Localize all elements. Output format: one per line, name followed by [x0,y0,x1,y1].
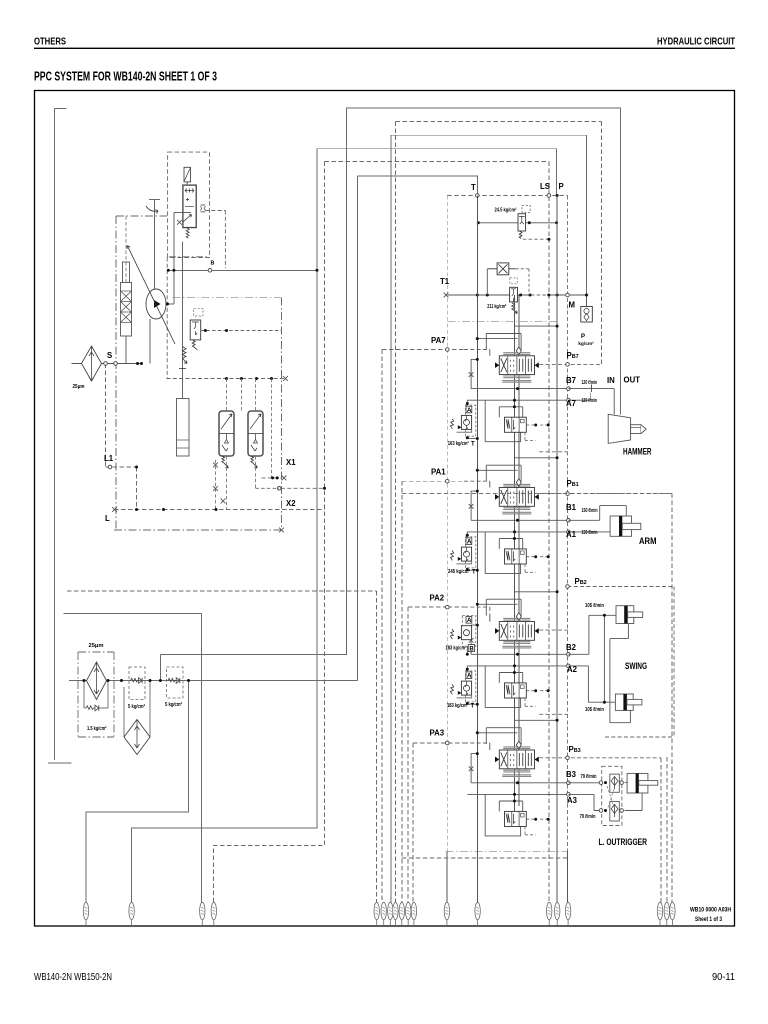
svg-text:B: B [211,261,215,267]
svg-text:WB10 0000 A03H: WB10 0000 A03H [690,907,731,914]
svg-text:WB140-2N WB150-2N: WB140-2N WB150-2N [34,972,112,983]
svg-text:183 kg/cm²: 183 kg/cm² [446,646,467,652]
svg-text:L1: L1 [104,454,114,463]
svg-text:90-11: 90-11 [712,972,735,983]
svg-text:A: A [467,617,472,624]
svg-text:183 kg/cm²: 183 kg/cm² [447,703,468,709]
svg-text:Sheet 1 of 3: Sheet 1 of 3 [695,916,722,923]
svg-text:LS: LS [540,182,550,191]
svg-text:X1: X1 [286,458,296,467]
svg-text:PA2: PA2 [430,594,445,603]
svg-text:P: P [559,182,564,191]
svg-text:B: B [469,646,474,652]
svg-text:25μm: 25μm [89,643,104,649]
svg-text:79 ℓ/min: 79 ℓ/min [581,774,597,780]
svg-text:B2: B2 [566,643,577,652]
svg-text:ARM: ARM [639,536,657,546]
svg-text:211 kg/cm²: 211 kg/cm² [487,304,506,310]
svg-text:M: M [569,301,576,310]
svg-text:P: P [581,334,585,340]
svg-text:1.5 kg/cm²: 1.5 kg/cm² [87,726,107,732]
svg-text:T: T [471,183,476,192]
svg-text:T: T [471,442,475,448]
svg-text:25μm: 25μm [73,384,85,390]
svg-text:105 ℓ/min: 105 ℓ/min [585,707,604,713]
svg-text:PPC SYSTEM FOR WB140-2N SHEET: PPC SYSTEM FOR WB140-2N SHEET 1 OF 3 [34,70,217,84]
svg-text:PA3: PA3 [430,729,445,738]
svg-text:HYDRAULIC CIRCUIT: HYDRAULIC CIRCUIT [657,36,735,48]
svg-text:120 ℓ/min: 120 ℓ/min [582,398,598,404]
svg-text:A2: A2 [567,665,578,674]
svg-text:T1: T1 [440,277,450,286]
svg-text:245 kg/cm²: 245 kg/cm² [448,569,470,575]
svg-text:150 ℓ/min: 150 ℓ/min [582,508,598,514]
svg-text:B3: B3 [566,770,577,779]
svg-text:OTHERS: OTHERS [34,36,66,48]
svg-text:A1: A1 [566,530,577,539]
svg-text:150 ℓ/min: 150 ℓ/min [582,530,598,536]
svg-text:SWING: SWING [625,661,647,671]
svg-text:OUT: OUT [624,376,641,385]
svg-text:L. OUTRIGGER: L. OUTRIGGER [599,837,648,847]
svg-text:T: T [471,704,475,710]
svg-text:B1: B1 [566,503,577,512]
svg-text:T: T [472,570,476,576]
svg-text:PA1: PA1 [431,468,446,477]
svg-text:HAMMER: HAMMER [623,447,652,457]
svg-text:163 kg/cm²: 163 kg/cm² [448,441,469,447]
svg-text:120 ℓ/min: 120 ℓ/min [582,380,598,386]
svg-text:105 ℓ/min: 105 ℓ/min [585,603,604,609]
svg-text:S: S [107,351,112,360]
svg-text:B7: B7 [566,376,576,385]
svg-text:L: L [105,514,110,523]
svg-text:PA7: PA7 [431,336,446,345]
svg-text:X2: X2 [286,499,296,508]
svg-text:79 ℓ/min: 79 ℓ/min [580,814,596,820]
svg-text:24.5 kg/cm²: 24.5 kg/cm² [495,208,517,214]
svg-text:kg/cm²: kg/cm² [578,341,594,347]
svg-text:5 kg/cm²: 5 kg/cm² [128,704,145,710]
svg-text:5 kg/cm²: 5 kg/cm² [165,702,182,708]
svg-text:A3: A3 [567,796,578,805]
svg-text:A7: A7 [566,399,576,408]
svg-text:IN: IN [607,376,615,385]
